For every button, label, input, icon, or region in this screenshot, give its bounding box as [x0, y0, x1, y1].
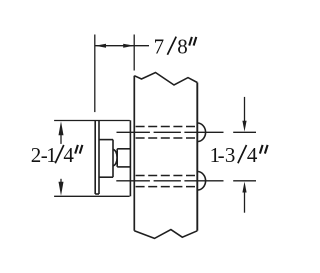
- svg-text:4: 4: [247, 143, 258, 167]
- svg-text:7: 7: [154, 34, 165, 58]
- svg-text:2: 2: [31, 143, 42, 167]
- svg-text:-: -: [218, 143, 225, 167]
- svg-text:4: 4: [63, 143, 74, 167]
- svg-text:8: 8: [177, 34, 188, 58]
- svg-text:1: 1: [46, 143, 57, 167]
- svg-text:3: 3: [225, 143, 236, 167]
